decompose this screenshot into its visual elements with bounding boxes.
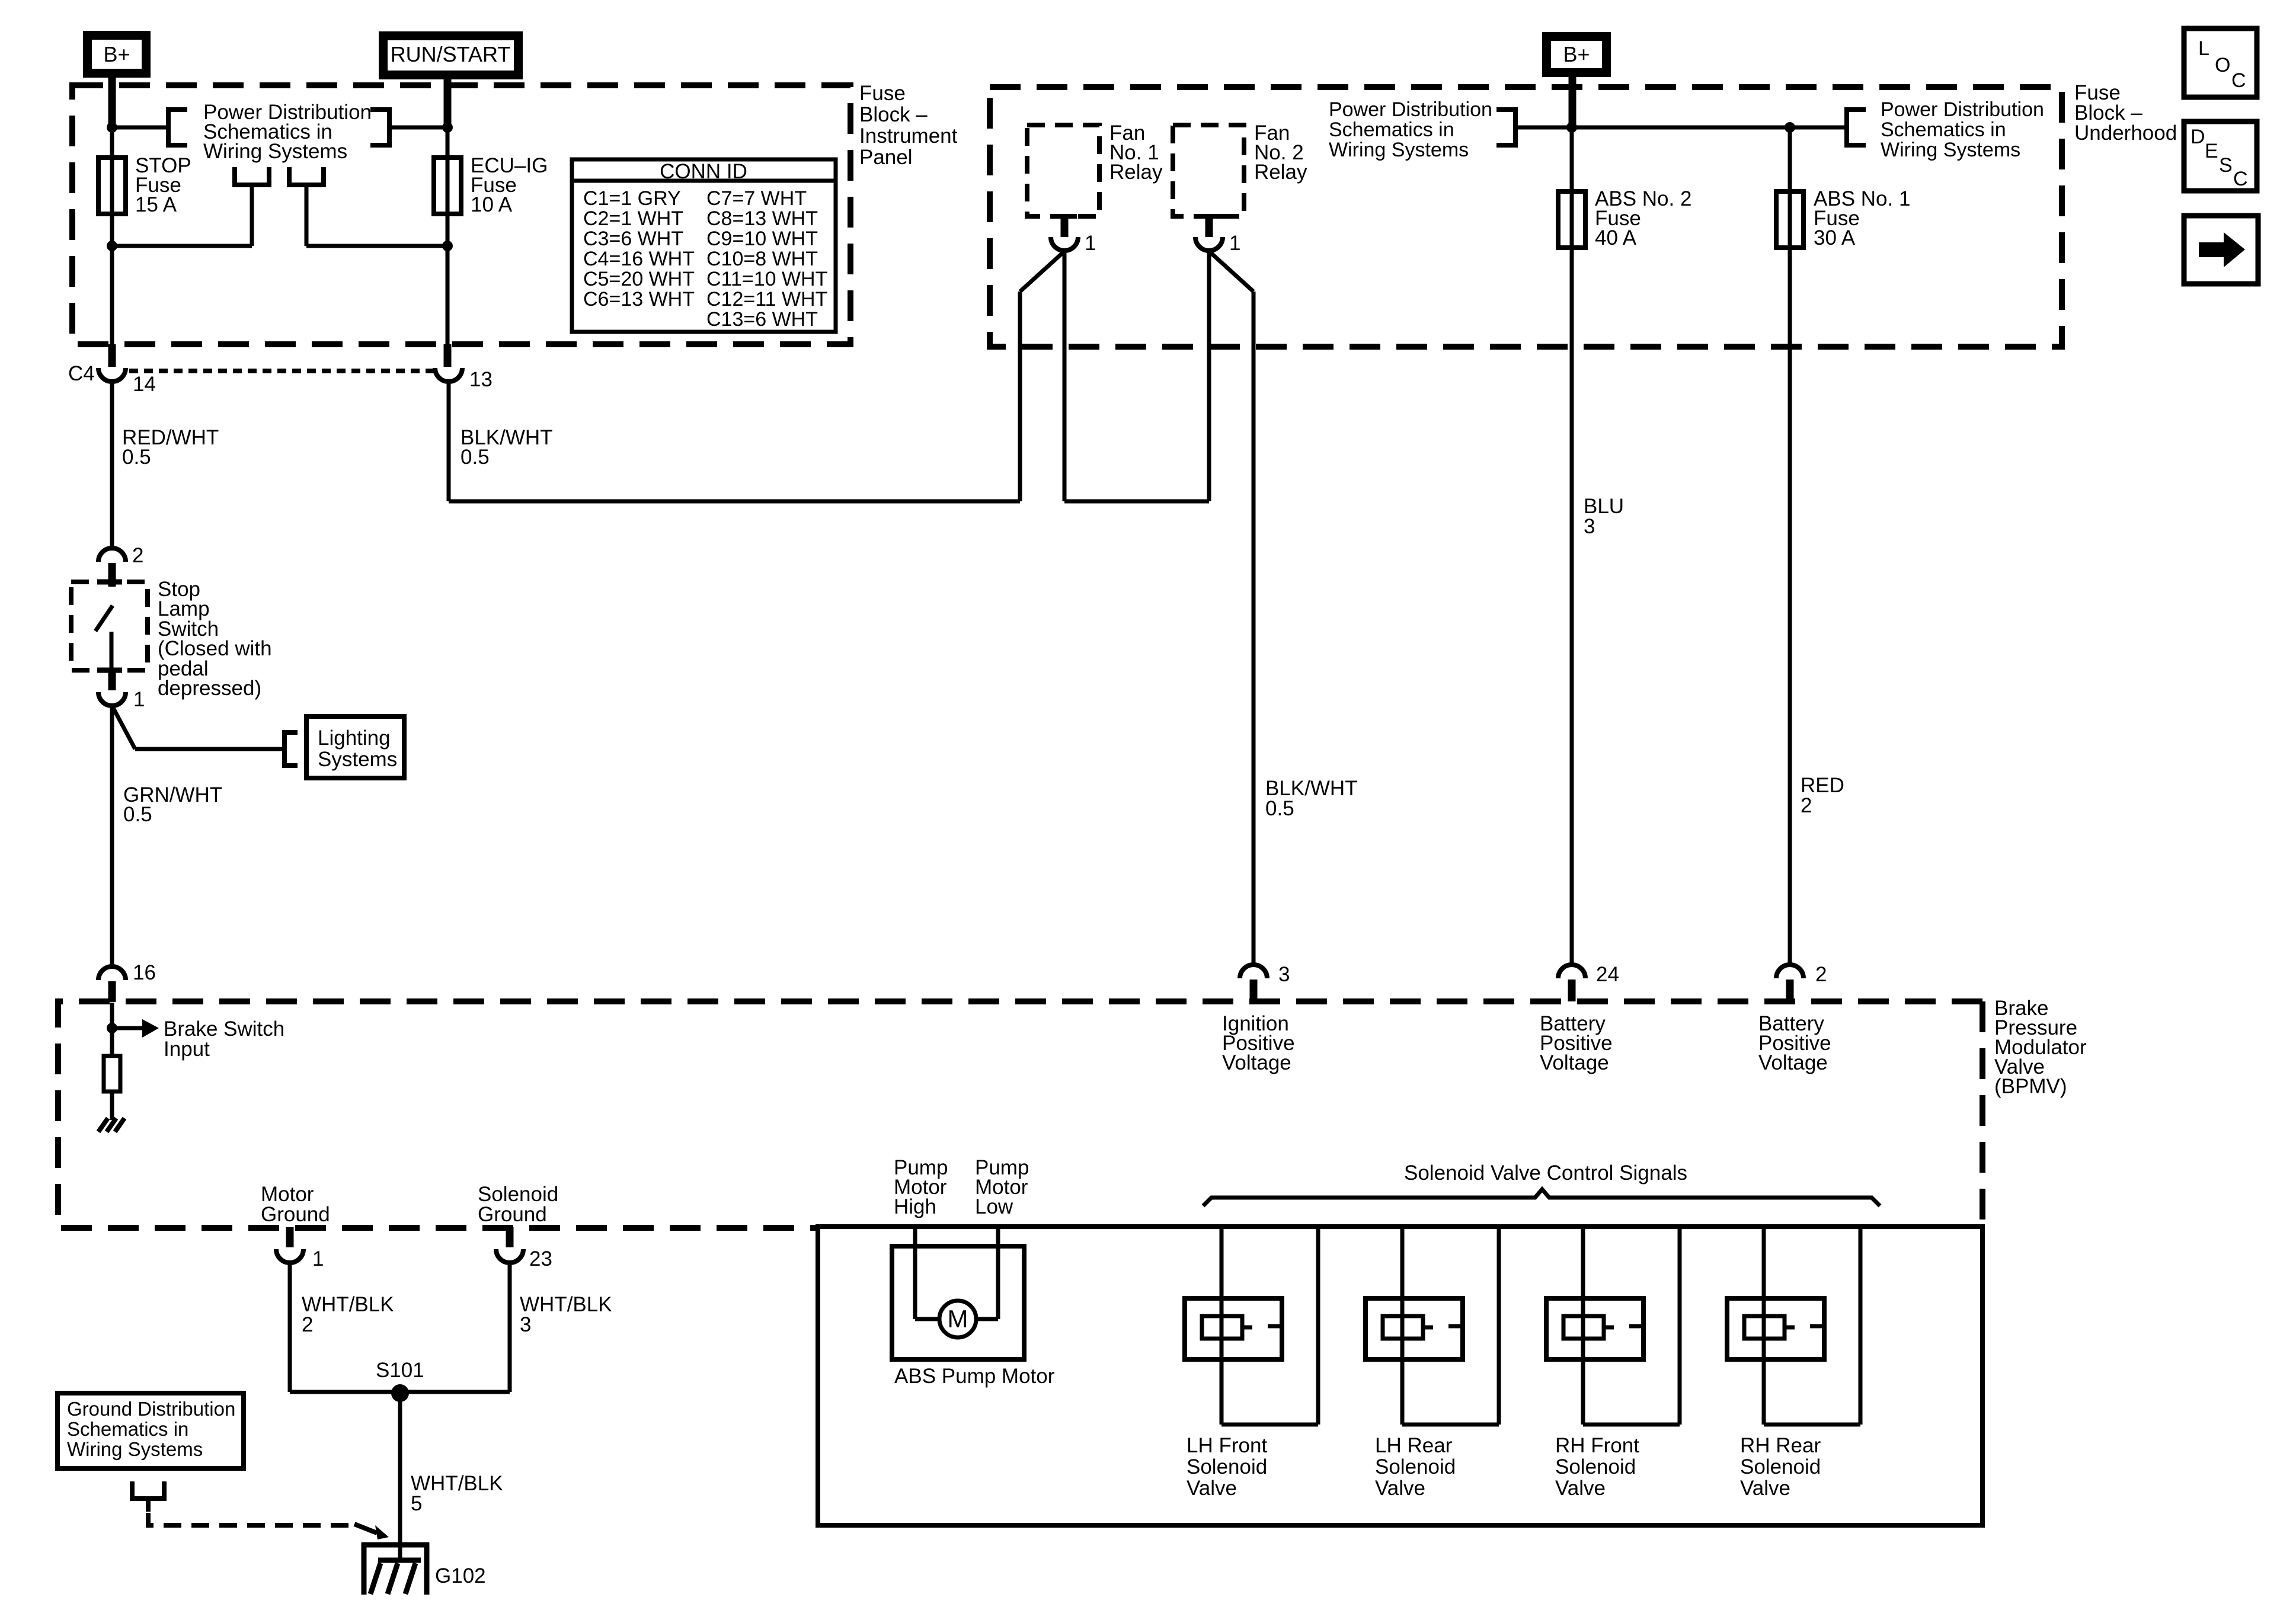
svg-text:2: 2: [1801, 794, 1812, 817]
svg-text:O: O: [2215, 54, 2230, 76]
svg-text:Power Distribution: Power Distribution: [1329, 98, 1492, 121]
svg-text:C13=6 WHT: C13=6 WHT: [706, 308, 818, 331]
svg-text:Ground Distribution: Ground Distribution: [67, 1398, 235, 1420]
svg-text:Wiring Systems: Wiring Systems: [67, 1438, 203, 1460]
svg-text:S101: S101: [376, 1359, 424, 1382]
svg-text:B+: B+: [1563, 42, 1590, 66]
svg-text:Solenoid: Solenoid: [1375, 1455, 1456, 1478]
svg-text:C11=10 WHT: C11=10 WHT: [706, 268, 827, 290]
svg-text:C7=7 WHT: C7=7 WHT: [706, 187, 807, 210]
svg-text:Schematics in: Schematics in: [1329, 119, 1454, 141]
svg-text:E: E: [2205, 140, 2218, 162]
svg-text:2: 2: [302, 1313, 313, 1336]
svg-text:RH Rear: RH Rear: [1740, 1434, 1821, 1457]
svg-text:10 A: 10 A: [471, 193, 513, 216]
svg-text:Block –: Block –: [859, 103, 928, 126]
svg-text:RUN/START: RUN/START: [391, 42, 511, 66]
svg-text:C10=8 WHT: C10=8 WHT: [706, 248, 818, 270]
svg-text:Wiring Systems: Wiring Systems: [1329, 139, 1469, 161]
svg-text:Relay: Relay: [1109, 161, 1163, 184]
svg-text:Power Distribution: Power Distribution: [1881, 98, 2044, 121]
svg-text:Voltage: Voltage: [1222, 1051, 1291, 1074]
svg-text:G102: G102: [435, 1564, 486, 1587]
svg-text:WHT/BLK: WHT/BLK: [411, 1472, 503, 1495]
svg-text:1: 1: [312, 1247, 324, 1270]
svg-text:0.5: 0.5: [123, 803, 152, 826]
svg-text:C1=1 GRY: C1=1 GRY: [583, 187, 681, 210]
svg-text:Schematics in: Schematics in: [1881, 119, 2006, 141]
svg-text:Lighting: Lighting: [318, 726, 391, 750]
svg-text:Valve: Valve: [1740, 1477, 1790, 1500]
svg-text:30 A: 30 A: [1814, 226, 1856, 249]
svg-text:LH Front: LH Front: [1187, 1434, 1267, 1457]
svg-text:1: 1: [1229, 232, 1240, 255]
svg-text:Valve: Valve: [1187, 1477, 1237, 1500]
svg-text:Valve: Valve: [1375, 1477, 1425, 1500]
svg-text:Underhood: Underhood: [2074, 121, 2177, 145]
svg-text:D: D: [2191, 126, 2205, 148]
svg-text:S: S: [2219, 154, 2233, 177]
svg-text:3: 3: [1278, 963, 1290, 986]
svg-text:M: M: [948, 1305, 968, 1333]
svg-text:Systems: Systems: [318, 748, 397, 771]
svg-text:14: 14: [133, 373, 156, 396]
svg-text:0.5: 0.5: [461, 446, 490, 469]
svg-text:Wiring Systems: Wiring Systems: [203, 140, 347, 163]
svg-text:C9=10 WHT: C9=10 WHT: [706, 228, 818, 250]
svg-text:C: C: [2231, 69, 2246, 92]
svg-text:Valve: Valve: [1555, 1477, 1606, 1500]
svg-text:CONN ID: CONN ID: [660, 160, 747, 183]
svg-text:24: 24: [1596, 963, 1619, 986]
svg-text:Wiring Systems: Wiring Systems: [1881, 139, 2020, 161]
svg-text:Relay: Relay: [1254, 161, 1307, 184]
svg-text:Voltage: Voltage: [1540, 1051, 1609, 1074]
svg-text:3: 3: [520, 1313, 531, 1336]
svg-text:1: 1: [133, 688, 145, 711]
svg-text:RH Front: RH Front: [1555, 1434, 1639, 1457]
svg-text:15 A: 15 A: [135, 193, 177, 216]
svg-text:13: 13: [469, 368, 493, 391]
svg-text:Ground: Ground: [478, 1203, 547, 1226]
svg-text:LH Rear: LH Rear: [1375, 1434, 1453, 1457]
svg-text:Low: Low: [975, 1195, 1013, 1218]
svg-text:Input: Input: [164, 1038, 210, 1061]
svg-text:Instrument: Instrument: [859, 124, 958, 148]
svg-text:C5=20 WHT: C5=20 WHT: [583, 268, 695, 290]
svg-text:16: 16: [133, 961, 156, 984]
svg-text:WHT/BLK: WHT/BLK: [302, 1293, 394, 1316]
svg-text:(BPMV): (BPMV): [1994, 1075, 2067, 1098]
svg-text:Ground: Ground: [261, 1203, 330, 1226]
svg-text:Voltage: Voltage: [1758, 1051, 1828, 1074]
svg-text:Solenoid: Solenoid: [1740, 1455, 1821, 1478]
svg-text:3: 3: [1584, 515, 1595, 538]
svg-text:C4=16 WHT: C4=16 WHT: [583, 248, 695, 270]
svg-text:C12=11 WHT: C12=11 WHT: [706, 288, 827, 311]
svg-text:Solenoid Valve Control Signals: Solenoid Valve Control Signals: [1404, 1161, 1687, 1185]
svg-text:High: High: [894, 1195, 936, 1218]
svg-text:40 A: 40 A: [1595, 226, 1637, 249]
svg-text:depressed): depressed): [158, 677, 261, 700]
svg-text:0.5: 0.5: [1265, 797, 1294, 820]
svg-text:C6=13 WHT: C6=13 WHT: [583, 288, 695, 311]
svg-text:Panel: Panel: [859, 146, 913, 169]
svg-text:Fuse: Fuse: [859, 82, 906, 105]
svg-text:Schematics in: Schematics in: [67, 1418, 188, 1440]
svg-text:WHT/BLK: WHT/BLK: [520, 1293, 612, 1316]
svg-text:ABS Pump Motor: ABS Pump Motor: [894, 1365, 1055, 1388]
svg-text:Solenoid: Solenoid: [1187, 1455, 1267, 1478]
svg-text:5: 5: [411, 1492, 422, 1515]
svg-text:C2=1 WHT: C2=1 WHT: [583, 207, 683, 230]
svg-text:C3=6 WHT: C3=6 WHT: [583, 228, 683, 250]
svg-text:2: 2: [1815, 963, 1827, 986]
svg-text:1: 1: [1085, 232, 1096, 255]
svg-text:L: L: [2198, 37, 2209, 60]
svg-text:0.5: 0.5: [122, 446, 151, 469]
svg-text:C8=13 WHT: C8=13 WHT: [706, 207, 818, 230]
svg-text:B+: B+: [103, 42, 130, 66]
svg-text:Solenoid: Solenoid: [1555, 1455, 1636, 1478]
svg-text:C4: C4: [68, 362, 95, 385]
svg-text:2: 2: [132, 544, 143, 567]
svg-text:23: 23: [529, 1247, 552, 1270]
svg-text:C: C: [2233, 168, 2248, 190]
